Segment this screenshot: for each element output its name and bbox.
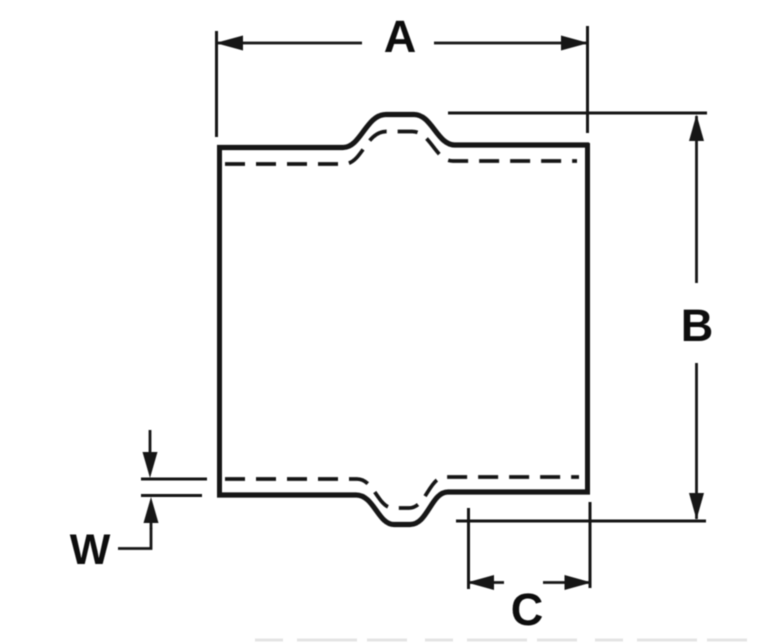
wire: dim W upper arrow tail xyxy=(149,430,152,456)
wire: dim W lower arrow tail xyxy=(150,522,153,529)
wire: body top edge with bead bump xyxy=(217,115,589,148)
wire: body bottom edge with bead dip xyxy=(217,492,590,525)
wire: body right edge xyxy=(585,143,590,494)
arrowhead A left xyxy=(216,36,244,51)
wire: dim B top extension line xyxy=(448,112,707,115)
wire: dim B bottom extension line xyxy=(456,520,706,523)
wire: dim C left extension line xyxy=(467,508,470,589)
arrowhead C left xyxy=(467,575,494,590)
arrowhead C right xyxy=(565,575,592,590)
scan artifact bottom xyxy=(255,639,760,642)
arrowhead B up xyxy=(689,115,704,142)
wire: dim A line right segment xyxy=(434,42,586,45)
svg-text:C: C xyxy=(511,584,544,635)
svg-text:W: W xyxy=(70,526,111,574)
svg-text:A: A xyxy=(384,11,417,62)
arrowhead W down xyxy=(143,452,158,478)
wire: dim C line left tail xyxy=(468,581,504,584)
wire: dim B line lower segment xyxy=(695,363,698,519)
wire: W leader line xyxy=(118,528,151,549)
arrowhead A right xyxy=(561,36,589,51)
wire: dim A right extension line xyxy=(586,26,589,133)
wire: dim A left extension line xyxy=(215,31,218,137)
wire: hidden inner wall top (dashed) xyxy=(225,132,577,165)
wire: body left edge xyxy=(217,146,222,495)
wire: dim A line left segment xyxy=(218,42,362,45)
wire: dim W upper extension line xyxy=(141,478,207,481)
wire: dim C right extension line xyxy=(589,502,592,588)
wire: hidden inner wall bottom (dashed) xyxy=(225,477,579,508)
wire: dim B line upper segment xyxy=(695,116,698,283)
svg-text:B: B xyxy=(681,300,714,351)
arrowhead B down xyxy=(689,493,704,520)
wire: dim C line right tail xyxy=(543,581,590,584)
wire: dim W lower extension line xyxy=(141,494,202,497)
arrowhead W up xyxy=(144,497,159,523)
